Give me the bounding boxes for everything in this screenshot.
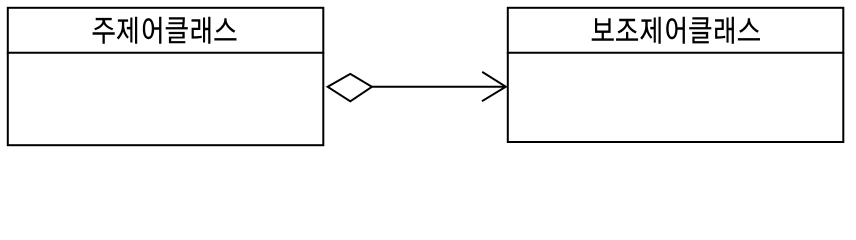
class name text: 주제어클래스 bbox=[93, 17, 237, 44]
association line bbox=[371, 86, 506, 88]
name compartment divider (left class) bbox=[7, 52, 325, 54]
class box: 보조제어클래스 (auxiliary control class) bbox=[508, 8, 844, 142]
class box: 주제어클래스 (main control class) bbox=[8, 8, 324, 145]
aggregation diamond (hollow) bbox=[328, 74, 372, 101]
name compartment divider (right class) bbox=[507, 52, 845, 54]
class name text: 보조제어클래스 bbox=[592, 17, 760, 44]
open arrowhead bbox=[482, 72, 506, 101]
